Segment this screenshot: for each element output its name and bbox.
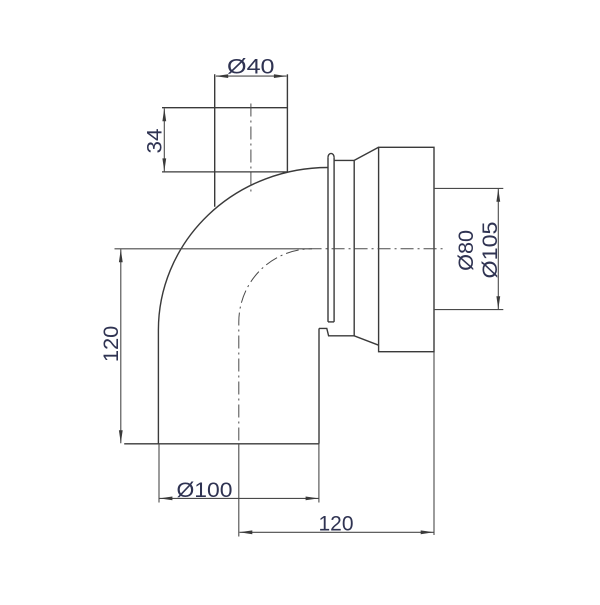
sealing ring left edge <box>327 157 329 322</box>
Ø80/Ø105 arrow bottom <box>496 296 500 309</box>
120 vertical arrow top <box>119 249 123 262</box>
small pipe centerline <box>250 104 252 194</box>
120 vertical arrow bottom <box>119 430 123 443</box>
120 bottom right extension line (below flange) <box>433 352 435 535</box>
120 bottom dimension line <box>240 531 434 533</box>
top inlet pipe left edge (with Ø40 extension above) <box>214 74 216 207</box>
120 vertical dimension line <box>120 249 122 443</box>
Ø100 right extension line <box>318 444 320 503</box>
Ø80/Ø105 arrow top <box>496 189 500 202</box>
spigot cylinder top edge <box>334 159 354 161</box>
svg-text:Ø100: Ø100 <box>177 479 233 502</box>
34 dimension line <box>163 109 165 172</box>
Ø40 arrow left <box>215 74 228 78</box>
spigot/cone junction edge <box>353 160 355 335</box>
cone top slope <box>354 147 378 160</box>
Ø100 arrow left <box>159 497 172 501</box>
top inlet pipe right edge (with Ø40 extension above) <box>286 74 288 172</box>
svg-text:120: 120 <box>100 326 123 363</box>
34 lower extension line <box>162 171 287 173</box>
flange body rectangle <box>379 147 434 351</box>
bottom pipe right wall <box>318 328 320 443</box>
34 arrow top <box>162 108 166 121</box>
sealing ring dome top <box>328 153 334 157</box>
svg-text:Ø105: Ø105 <box>479 222 502 279</box>
34 arrow bottom <box>162 158 166 171</box>
svg-text:34: 34 <box>143 128 166 153</box>
120 bottom arrow right <box>421 530 434 534</box>
Ø40 dimension line <box>216 75 287 77</box>
120 vertical extension line (top, at outlet centerline) <box>115 248 313 250</box>
Ø40 arrow right <box>274 74 287 78</box>
top inlet pipe top face + 34 upper extension line <box>162 107 287 109</box>
Ø80 bottom extension line <box>434 309 503 311</box>
bottom outlet face <box>124 443 319 445</box>
sealing ring bottom cap <box>328 321 334 323</box>
svg-text:Ø40: Ø40 <box>227 55 275 78</box>
Ø80/Ø105 dimension line <box>497 189 499 309</box>
outer elbow contour (left wall + quarter arc) <box>158 168 328 444</box>
Ø100 left extension line <box>158 444 160 503</box>
sealing ring right edge <box>333 157 335 322</box>
120 bottom center extension line <box>238 444 240 537</box>
Ø100 dimension line <box>160 497 319 499</box>
svg-text:120: 120 <box>319 513 354 536</box>
bend centerline (vertical + arc + horizontal) <box>239 249 446 441</box>
Ø100 arrow right <box>306 497 319 501</box>
svg-text:Ø80: Ø80 <box>455 230 478 271</box>
Ø80 top extension line <box>434 187 503 189</box>
step and spigot underside contour <box>319 328 379 345</box>
120 bottom arrow left <box>239 530 252 534</box>
